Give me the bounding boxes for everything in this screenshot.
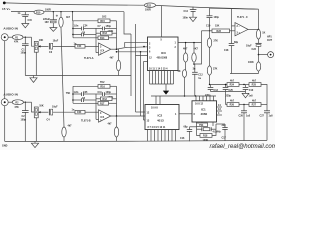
wire top rail — [5, 3, 144, 5]
svg-text:TL071-A: TL071-A — [84, 57, 94, 60]
wire mid right rail — [230, 73, 259, 75]
resistor 4k7 to mid rail — [110, 49, 121, 75]
svg-text:IC2: IC2 — [158, 113, 163, 117]
resistor 27K upper — [207, 31, 218, 66]
svg-text:10K: 10K — [77, 111, 82, 114]
wire IC1 top stubs — [195, 96, 197, 101]
svg-text:4k7: 4k7 — [252, 99, 257, 102]
svg-text:OUT: OUT — [267, 39, 273, 42]
svg-text:100n: 100n — [183, 16, 189, 19]
resistor 100K to rail — [248, 55, 261, 74]
capacitor C27 1u0 — [260, 105, 274, 141]
svg-text:R12: R12 — [103, 98, 108, 101]
svg-text:2K: 2K — [178, 70, 181, 73]
svg-text:4k7: 4k7 — [110, 57, 115, 60]
svg-text:150p: 150p — [106, 25, 112, 28]
svg-text:100p: 100p — [21, 119, 27, 122]
crystal X1 4.0MHz — [197, 124, 222, 134]
svg-text:4.0MHz: 4.0MHz — [213, 131, 222, 134]
resistor 47K input — [12, 35, 23, 44]
svg-text:C19: C19 — [206, 25, 211, 28]
resistor 4k7 series box — [74, 42, 99, 48]
wire ladder left column — [72, 21, 74, 38]
svg-text:4060: 4060 — [201, 112, 208, 116]
svg-text:1u0: 1u0 — [269, 115, 274, 118]
ground — [22, 24, 29, 28]
wire vert x129 — [130, 34, 132, 96]
capacitor C4 10uF — [47, 106, 76, 122]
resistor 4k7 row2a — [227, 99, 239, 106]
capacitor C24 1.8n — [73, 24, 96, 30]
wire rail after R10 — [44, 11, 124, 13]
trimmer 10K — [32, 37, 49, 75]
svg-text:100p: 100p — [106, 91, 112, 94]
capacitor C11 100p — [96, 91, 117, 96]
svg-text:R13: R13 — [103, 32, 108, 35]
capacitor C6 — [73, 32, 96, 37]
svg-text:GND: GND — [2, 145, 8, 148]
svg-text:100R: 100R — [45, 9, 51, 12]
capacitor C3 10uF — [49, 39, 75, 54]
IC3 bottom pin comb — [149, 68, 174, 84]
svg-text:R27: R27 — [252, 104, 257, 107]
capacitor 3n C12 — [192, 64, 203, 96]
svg-text:R25: R25 — [252, 84, 257, 87]
wire ch1 out to IC3 pin — [117, 47, 148, 49]
wire second pin row — [117, 51, 148, 53]
svg-text:10K: 10K — [77, 45, 82, 48]
resistor 27K lower — [207, 66, 217, 85]
wire row1 right — [261, 85, 267, 105]
svg-text:100p: 100p — [214, 16, 220, 19]
wire plus input from left — [202, 30, 210, 32]
wire ladder top row — [73, 20, 99, 22]
ground — [50, 28, 57, 32]
wire ladder mid column — [95, 28, 97, 52]
svg-text:1n0: 1n0 — [249, 94, 254, 97]
resistor 1K2 2 — [98, 81, 117, 88]
svg-text:C14: C14 — [184, 10, 189, 13]
wire +15V rail — [11, 11, 34, 13]
capacitor C26 1u0 — [239, 105, 251, 141]
svg-text:1K: 1K — [262, 32, 265, 35]
wire IC1 right pins — [217, 104, 223, 115]
capacitor C25 1.8n — [73, 91, 96, 96]
capacitor C13 — [205, 85, 219, 98]
svg-text:47K: 47K — [14, 41, 19, 44]
svg-text:1.8n: 1.8n — [74, 24, 79, 27]
node opamp B out — [116, 115, 118, 117]
svg-text:R23: R23 — [217, 30, 222, 33]
svg-text:4k7: 4k7 — [68, 124, 73, 127]
op-amp U-A TL071 — [84, 43, 117, 60]
wire to trimmer 2 — [23, 101, 31, 103]
svg-text:1u: 1u — [198, 77, 201, 80]
svg-text:C23: C23 — [252, 48, 257, 51]
capacitor 100p feedback — [207, 8, 220, 31]
svg-text:100R: 100R — [145, 9, 151, 12]
wire top rail right part — [156, 5, 259, 9]
wire IC3 supply pin — [161, 6, 163, 37]
wire row1 — [210, 84, 228, 86]
svg-text:1n: 1n — [72, 108, 75, 111]
svg-text:C7: C7 — [98, 25, 102, 28]
svg-text:10K: 10K — [39, 105, 44, 108]
node IC3 out — [193, 63, 195, 65]
svg-text:rafael_real@hotmail.com: rafael_real@hotmail.com — [210, 144, 276, 150]
svg-text:15 V+: 15 V+ — [2, 7, 11, 11]
wire row2 mid — [239, 104, 249, 106]
svg-text:16 8 12: 16 8 12 — [195, 102, 204, 105]
resistor 4k7 vertical bias — [59, 12, 71, 127]
svg-text:4013: 4013 — [157, 118, 164, 122]
resistor 120K — [96, 30, 117, 35]
resistor R14 — [73, 36, 117, 40]
svg-text:220p: 220p — [205, 94, 211, 97]
wire ladder right column — [116, 21, 118, 49]
svg-text:10 11 1 14 2 15 4: 10 11 1 14 2 15 4 — [149, 68, 168, 71]
svg-text:100K: 100K — [203, 139, 209, 142]
svg-text:10uF: 10uF — [53, 39, 59, 42]
ground bottom-left — [31, 141, 38, 147]
resistor 4k7 bias lower — [62, 124, 72, 141]
node out — [258, 54, 260, 56]
svg-text:220p: 220p — [226, 94, 232, 97]
IC1 4060 — [192, 101, 217, 122]
svg-text:100K: 100K — [248, 61, 254, 64]
svg-text:AUDIO IN: AUDIO IN — [3, 27, 18, 31]
resistor 4k7 row1a — [227, 79, 239, 86]
jack input 1 — [1, 34, 12, 41]
wire row2 right — [261, 104, 267, 106]
capacitor C14 100n — [183, 7, 197, 20]
node opamp A out — [116, 48, 118, 50]
capacitor C2 100p — [21, 102, 29, 141]
wire ladder2 mid column — [95, 94, 97, 119]
resistor R10 100R — [34, 9, 51, 15]
wire rail end down — [72, 12, 74, 21]
svg-text:68p: 68p — [234, 41, 239, 44]
capacitor C7 150p — [96, 25, 117, 30]
svg-text:1K2: 1K2 — [102, 15, 107, 18]
resistor 4k7 row1b — [249, 79, 261, 86]
wire feedback up — [258, 9, 260, 29]
resistor R23 15K — [206, 25, 235, 33]
resistor R15 1K2 — [98, 15, 117, 23]
op-amp U-B TL071 — [81, 110, 145, 123]
wire vert x124.7 — [125, 41, 148, 43]
capacitor C1 100p — [21, 37, 29, 75]
svg-text:C4: C4 — [47, 119, 51, 122]
ground C14 — [190, 17, 197, 21]
svg-text:R16: R16 — [100, 85, 105, 88]
resistor R22 100R top — [144, 3, 155, 12]
capacitor C15 — [18, 12, 33, 24]
svg-text:R10: R10 — [36, 11, 41, 14]
wire ladder2 top row — [73, 85, 98, 87]
svg-text:27K: 27K — [214, 39, 219, 42]
wire mid ground rail — [25, 75, 131, 77]
node ladder2 dots — [72, 93, 74, 95]
wire to trimmer — [23, 36, 32, 38]
wire vert x140.5 — [140, 52, 142, 116]
wire pullup rail — [178, 42, 202, 44]
capacitor C23 10uF — [246, 43, 262, 54]
svg-text:R22: R22 — [147, 4, 152, 7]
wire IC3 out to opamp C input — [194, 43, 202, 64]
wire row1 mid — [239, 84, 249, 86]
capacitor C16 68p — [180, 125, 197, 141]
capacitor C9 220uF 16V — [43, 12, 58, 28]
svg-text:TK2: TK2 — [100, 81, 105, 84]
wire bottom ground rail — [5, 140, 267, 141]
svg-text:27K: 27K — [213, 68, 218, 71]
resistor 20K lower — [178, 70, 187, 96]
wire IC1 bottom stubs — [196, 122, 198, 123]
svg-text:R14: R14 — [100, 37, 105, 40]
IC2 bottom comb — [148, 130, 176, 142]
svg-text:C15: C15 — [28, 19, 33, 22]
svg-text:40161088: 40161088 — [157, 56, 168, 59]
svg-text:C18: C18 — [224, 49, 229, 52]
svg-text:TL071 - C: TL071 - C — [237, 16, 248, 19]
svg-text:C17: C17 — [222, 137, 227, 140]
op-amp U-C TL071 — [235, 16, 259, 36]
svg-text:15K: 15K — [215, 25, 220, 28]
svg-text:8 7 4 6 9 5 13 11: 8 7 4 6 9 5 13 11 — [148, 126, 166, 129]
resistor R17 box — [73, 102, 117, 106]
wire ladder2 right column — [116, 86, 118, 116]
svg-text:R18: R18 — [203, 135, 208, 138]
svg-text:4k7: 4k7 — [66, 16, 71, 19]
wire left ground column — [4, 41, 6, 99]
svg-text:R15: R15 — [100, 20, 105, 23]
wire vert x143.5 — [143, 62, 145, 121]
svg-text:16V: 16V — [45, 21, 50, 24]
wire IC2 top stubs — [155, 96, 157, 105]
svg-text:10uF: 10uF — [52, 106, 58, 109]
svg-text:10 9 8: 10 9 8 — [151, 107, 158, 110]
svg-text:75K: 75K — [199, 124, 204, 127]
capacitor C25b — [223, 85, 234, 105]
IC2 4013 — [145, 105, 179, 130]
svg-text:1u0: 1u0 — [246, 115, 251, 118]
svg-text:75K: 75K — [66, 92, 71, 95]
bus arrow down — [163, 84, 169, 95]
svg-text:AUDIO IN: AUDIO IN — [3, 93, 18, 97]
svg-text:C27: C27 — [260, 115, 265, 118]
ground mid — [30, 76, 37, 83]
svg-text:100p: 100p — [21, 52, 27, 55]
resistor 120K 2 — [96, 96, 117, 101]
svg-text:C16: C16 — [180, 137, 185, 140]
svg-text:IC3: IC3 — [161, 51, 166, 55]
resistor 4K7 pullup 1 — [183, 43, 188, 70]
jack input 2 — [1, 99, 12, 106]
capacitor C10 — [243, 85, 254, 98]
resistor 4K7 pullup 2 — [192, 43, 199, 64]
node out C — [258, 29, 260, 31]
svg-text:1n: 1n — [18, 12, 21, 15]
svg-text:TL071-B: TL071-B — [81, 120, 91, 123]
wire row2 left — [225, 84, 226, 85]
jack output — [259, 52, 274, 58]
wire feedback top — [210, 8, 259, 9]
resistor 75K — [197, 123, 208, 127]
node top-left corner blob — [3, 2, 6, 5]
svg-text:3n: 3n — [193, 68, 196, 71]
svg-text:R26: R26 — [230, 104, 235, 107]
svg-text:C3: C3 — [49, 51, 53, 54]
wire row caps bottom — [211, 91, 246, 93]
capacitor C5 — [73, 97, 96, 102]
wire IC2 to IC1 — [179, 113, 192, 115]
svg-text:4k7: 4k7 — [108, 122, 113, 125]
svg-text:C11: C11 — [98, 91, 103, 94]
capacitor C17 33p — [216, 124, 228, 141]
wire ladder2 left column — [72, 86, 74, 103]
resistor 1K — [256, 30, 265, 44]
node rail dots — [53, 11, 54, 12]
IC3 — [148, 37, 179, 71]
svg-text:C10: C10 — [249, 89, 254, 92]
resistor R18 100K — [197, 129, 217, 142]
svg-text:4k7: 4k7 — [230, 99, 235, 102]
svg-text:R24: R24 — [230, 84, 235, 87]
svg-text:4k7: 4k7 — [252, 79, 257, 82]
wire supply drop x124 — [124, 12, 131, 34]
wire vert x137 — [136, 55, 148, 57]
svg-text:10uF: 10uF — [246, 45, 252, 48]
svg-text:47K: 47K — [14, 106, 19, 109]
svg-text:68p: 68p — [184, 125, 189, 128]
resistor 47K input 2 — [12, 100, 23, 109]
resistor 4k7 to bottom rail — [108, 116, 119, 141]
wire bus to ICs — [151, 95, 216, 97]
capacitor C18 68p — [224, 41, 239, 74]
wire minus input from top line — [231, 9, 233, 26]
svg-text:10K: 10K — [39, 39, 44, 42]
ground right — [242, 92, 249, 98]
svg-text:4k7: 4k7 — [230, 79, 235, 82]
resistor 4k7 row2b — [249, 99, 261, 106]
node ladder dots — [72, 28, 74, 30]
svg-text:1.8n: 1.8n — [74, 91, 79, 94]
svg-text:R17: R17 — [100, 102, 105, 105]
trimmer 10K 2 — [32, 102, 49, 141]
resistor series box 2 — [72, 108, 99, 114]
svg-text:C26: C26 — [239, 115, 244, 118]
